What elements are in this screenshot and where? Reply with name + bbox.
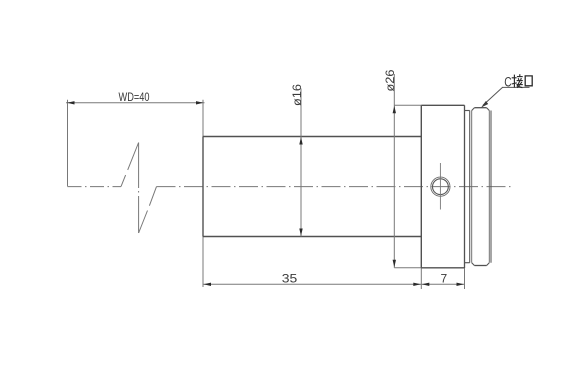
centerline optical axis left segment — [68, 186, 122, 188]
glyph jie right dot — [520, 78, 523, 80]
flange back face extension line below — [464, 268, 466, 289]
svg-text:C: C — [504, 74, 512, 89]
flange bottom edge outline — [421, 267, 464, 269]
glyph jie hand radical horizontal — [512, 77, 517, 79]
C-mount thread ring bottom edge — [474, 265, 486, 267]
C-mount groove ring bottom edge — [465, 262, 470, 264]
dimension dia26 line — [393, 74, 395, 268]
centerline optical axis main segment — [157, 186, 514, 188]
C-mount ring bottom-right chamfer — [487, 263, 490, 266]
C-mount label glyph kou box — [525, 76, 532, 86]
flange front face outline — [420, 105, 422, 268]
glyph jie middle horizontal — [517, 80, 523, 82]
glyph jie top tick — [519, 74, 521, 76]
set screw hole circle inner — [433, 179, 449, 195]
lens tube outline top edge — [203, 136, 421, 138]
C-mount groove ring top edge — [465, 110, 470, 112]
lens tube outline bottom edge — [203, 236, 421, 238]
C-mount ring rear face — [490, 111, 492, 263]
dimension WD=40 line — [66, 102, 205, 104]
dimension dia16 line — [300, 89, 302, 237]
lens tube front face outline — [202, 137, 204, 237]
flange front face extension line below — [420, 268, 422, 289]
flange top edge outline — [421, 104, 464, 106]
axis break symbol right diagonal — [139, 187, 157, 233]
dimension 7 arrow right — [457, 283, 465, 286]
dimension dia16 arrow top — [299, 137, 302, 145]
glyph jie top horizontal — [517, 76, 523, 78]
flange bottom extension line — [394, 267, 421, 269]
C-mount thread ring top edge — [474, 107, 486, 109]
flange back face outline — [464, 105, 466, 268]
dimension 35 arrow right — [413, 283, 421, 286]
C-mount thread ring left chamfer tangent line — [471, 111, 473, 263]
C-mount leader arrowhead — [481, 101, 488, 108]
dimension 35 arrow left — [204, 283, 212, 286]
svg-text:ø16: ø16 — [290, 84, 304, 106]
lens tube front face extension line — [202, 100, 204, 287]
dimension dia26 arrow bottom — [393, 260, 396, 268]
C-mount ring top-right chamfer — [487, 108, 490, 111]
set screw vertical centerline — [439, 163, 441, 210]
C-mount thread ring left face — [469, 111, 471, 263]
dimension 7 line — [421, 283, 464, 285]
dimension WD=40 arrow right — [196, 101, 204, 104]
C-mount ring bottom-left chamfer — [472, 263, 475, 266]
glyph jie left dot — [517, 78, 520, 80]
dimension 35 line — [203, 283, 421, 285]
glyph jie woman bend stroke — [517, 81, 522, 88]
axis break symbol vertical — [138, 143, 140, 234]
axis break symbol left diagonal — [121, 143, 139, 187]
C-mount ring right chamfer tangent line — [488, 111, 490, 263]
dimension WD=40 extension line left — [67, 100, 69, 187]
svg-text:WD=40: WD=40 — [119, 90, 150, 104]
glyph jie woman right diagonal — [517, 82, 522, 88]
dimension WD=40 arrow left — [67, 101, 75, 104]
C-mount leader line — [483, 87, 503, 105]
dimension 7 arrow left — [422, 283, 430, 286]
C-mount ring top-left chamfer — [472, 108, 475, 111]
glyph jie woman horizontal — [517, 84, 523, 86]
dimension dia16 arrow bottom — [299, 229, 302, 237]
svg-text:7: 7 — [440, 271, 447, 285]
glyph jie hand radical rising stroke — [512, 83, 517, 84]
C-mount label underline — [502, 86, 530, 88]
svg-text:ø26: ø26 — [383, 69, 397, 91]
set screw thread circle outer — [431, 177, 450, 196]
C-mount label glyph jie hand radical vertical — [512, 74, 523, 88]
dimension dia26 arrow top — [393, 106, 396, 114]
svg-text:35: 35 — [282, 271, 298, 285]
flange top extension line — [394, 104, 421, 106]
